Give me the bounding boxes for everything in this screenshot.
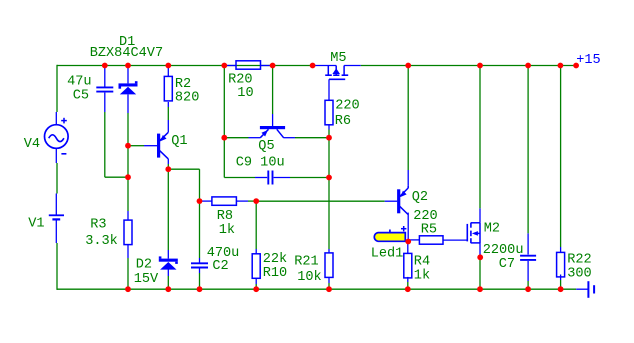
svg-text:V1: V1: [28, 217, 44, 232]
junction C9 right node: [326, 175, 332, 181]
junction top rail R20 right: [270, 63, 276, 69]
transistor Q2 (PNP): [397, 189, 400, 213]
junction bottom rail R10: [253, 286, 259, 292]
svg-text:10k: 10k: [297, 270, 321, 285]
svg-text:C2: C2: [212, 259, 228, 274]
svg-text:2200u: 2200u: [483, 243, 524, 258]
svg-text:C5: C5: [73, 89, 89, 104]
LED Led1: [374, 233, 405, 242]
svg-text:Q5: Q5: [258, 139, 274, 154]
wire R20 leads: [224, 65, 236, 67]
svg-text:R10: R10: [263, 266, 287, 281]
svg-text:10: 10: [237, 86, 253, 101]
resistor R22 body: [557, 252, 565, 277]
capacitor C2: [191, 262, 208, 264]
wire R8 leads: [200, 200, 212, 202]
junction C5-D1 node: [125, 174, 131, 180]
svg-text:R21: R21: [294, 255, 318, 270]
resistor R20 body: [236, 61, 261, 69]
resistor R6 body: [325, 100, 333, 125]
wire top rail right section: [361, 65, 561, 67]
wire D1/R3 column: [127, 68, 129, 83]
junction bottom rail D2: [165, 286, 171, 292]
wire Q2 emitter column: [407, 66, 409, 171]
svg-text:47u: 47u: [67, 75, 91, 90]
wire C9 horizontal right section: [274, 177, 290, 179]
svg-text:3.3k: 3.3k: [85, 234, 118, 249]
voltage source V4: [45, 125, 69, 149]
wire Q5 emitter stub: [224, 137, 248, 139]
junction bottom rail R3: [125, 286, 131, 292]
junction Q1 base node: [125, 143, 131, 149]
junction top rail C7: [525, 63, 531, 69]
wire C9 horizontal left section: [224, 177, 255, 179]
junction M2 source node: [477, 254, 483, 260]
wire C5 to D1 node horizontal: [105, 176, 128, 178]
junction Q5 emitter node: [221, 135, 227, 141]
svg-text:300: 300: [567, 267, 591, 282]
svg-text:220: 220: [335, 99, 359, 114]
svg-text:R5: R5: [421, 222, 437, 237]
junction Q1 collector node: [165, 166, 171, 172]
junction bottom rail R22: [558, 286, 564, 292]
junction bottom rail M2 source: [477, 286, 483, 292]
capacitor C9: [267, 171, 269, 185]
junction R8 right node: [253, 198, 259, 204]
svg-text:R22: R22: [567, 253, 591, 268]
junction top rail M2 drain: [477, 63, 483, 69]
wire R8 left node down to C2: [199, 201, 201, 258]
wire R22 column: [560, 66, 562, 248]
wire M5 gate / R6 / R21 column: [328, 79, 330, 100]
junction top rail C5: [102, 63, 108, 69]
wire M5 right lead: [344, 65, 361, 67]
junction R8 left node: [197, 198, 203, 204]
svg-text:Q2: Q2: [412, 190, 428, 205]
wire Q1 collector to D2 column: [167, 159, 169, 164]
wire Q5 emitter column from top rail: [223, 66, 225, 178]
svg-text:R3: R3: [90, 218, 106, 233]
zener diode D1: [119, 83, 138, 86]
svg-text:R8: R8: [217, 209, 233, 224]
terminal +15 node dot: [573, 63, 579, 69]
wire top rail left section: [57, 65, 313, 67]
wire M2 drain column: [479, 66, 481, 209]
resistor R21 body: [325, 253, 333, 278]
junction bottom rail C7: [525, 286, 531, 292]
svg-text:D2: D2: [136, 258, 152, 273]
svg-text:M2: M2: [484, 222, 500, 237]
wire C5 branch down: [104, 68, 106, 87]
junction top rail D1: [125, 63, 131, 69]
svg-text:+15: +15: [576, 53, 600, 68]
resistor R8 body: [212, 197, 237, 205]
wire Q5 base column: [272, 66, 274, 115]
junction top rail R20 left: [221, 63, 227, 69]
ground symbol: [576, 288, 587, 290]
junction bottom rail R21: [326, 286, 332, 292]
wire R5 right lead to M2 gate: [443, 239, 467, 241]
wire R10 column: [255, 201, 257, 249]
wire +15 stub: [560, 65, 576, 67]
wire bottom rail: [57, 288, 576, 290]
wire R5 left lead: [408, 239, 419, 241]
wire Q1 collector to R8 node: [168, 168, 199, 170]
junction LED/R4/R5 node: [405, 239, 411, 245]
transistor Q1 (PNP): [157, 134, 160, 158]
MOSFET M2 (N-channel, vertical): [479, 223, 481, 243]
wire down to R8 left node: [199, 169, 201, 201]
svg-text:1k: 1k: [219, 223, 235, 238]
Led1 plus sign: [401, 228, 406, 230]
svg-text:R4: R4: [414, 255, 430, 270]
V4 plus sign: [61, 120, 67, 122]
svg-text:22k: 22k: [263, 252, 287, 267]
svg-text:V4: V4: [24, 137, 40, 152]
wire R4 column: [407, 242, 409, 254]
junction bottom rail C2: [197, 286, 203, 292]
resistor R4 body: [404, 253, 412, 278]
resistor R10 body: [252, 254, 260, 278]
wire C2 to bottom rail: [199, 268, 201, 273]
wire left rail between V4 and V1: [56, 163, 58, 194]
transistor Q5 (PNP horizontal): [260, 126, 285, 129]
svg-text:Led1: Led1: [371, 247, 404, 262]
wire Q5 collector stub: [283, 137, 295, 139]
junction top rail R22 corner: [558, 63, 564, 69]
zener diode D2: [159, 259, 178, 262]
wire M2 source down: [479, 243, 481, 255]
svg-text:Q1: Q1: [171, 134, 187, 149]
svg-text:820: 820: [175, 91, 199, 106]
svg-text:C9 10u: C9 10u: [236, 156, 285, 171]
junction top rail R2: [165, 63, 171, 69]
svg-text:C7: C7: [499, 257, 515, 272]
capacitor C7: [520, 255, 536, 257]
wire C7 column: [527, 66, 529, 234]
wire R8 right node to Q2 base: [256, 200, 385, 202]
resistor R2 body: [164, 76, 172, 101]
svg-text:15V: 15V: [134, 272, 159, 287]
V4 minus sign: [61, 153, 66, 155]
svg-text:R6: R6: [335, 114, 351, 129]
resistor R5 body: [419, 236, 443, 244]
svg-text:M5: M5: [330, 51, 346, 66]
wire Q1 base: [128, 145, 144, 147]
wire R2/Q1 emitter column: [167, 68, 169, 76]
wire Q2 collector down to LED node: [407, 213, 409, 242]
svg-text:1k: 1k: [414, 269, 430, 284]
junction top rail Q2 emitter: [405, 63, 411, 69]
capacitor C5: [96, 86, 113, 88]
wire left rail below V1: [56, 243, 58, 290]
junction R6 bottom / Q5 collector node: [326, 135, 332, 141]
svg-text:BZX84C4V7: BZX84C4V7: [90, 46, 163, 61]
wire M5 left lead: [313, 65, 336, 67]
resistor R3 body: [124, 220, 132, 245]
wire left rail (V4/V1 column) top: [56, 65, 58, 112]
battery V1: [55, 194, 57, 215]
junction bottom rail R4: [405, 286, 411, 292]
junction top rail M5 drain: [310, 63, 316, 69]
MOSFET M5 (P-channel, horizontal): [327, 66, 329, 76]
